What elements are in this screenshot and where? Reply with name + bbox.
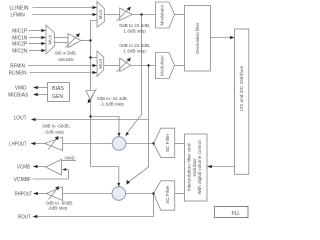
- svg-text:VCMBF: VCMBF: [14, 177, 32, 183]
- svg-text:VCMB: VCMB: [17, 165, 31, 171]
- svg-text:MIC2P: MIC2P: [12, 42, 27, 48]
- svg-text:Modulator: Modulator: [160, 54, 165, 76]
- svg-text:MUX: MUX: [48, 34, 53, 44]
- svg-text:Decimation filter: Decimation filter: [195, 22, 200, 54]
- svg-text:ROUT: ROUT: [18, 215, 31, 221]
- svg-text:1.6dB step: 1.6dB step: [123, 49, 146, 54]
- svg-text:1.6dB step: 1.6dB step: [123, 28, 146, 33]
- svg-text:0dB to 22.4dB,: 0dB to 22.4dB,: [119, 23, 150, 28]
- svg-text:LHPOUT: LHPOUT: [9, 142, 27, 148]
- svg-text:GEN: GEN: [52, 94, 63, 100]
- svg-text:-2dB step: -2dB step: [48, 206, 69, 211]
- svg-text:RHPOUT: RHPOUT: [15, 192, 33, 198]
- svg-text:RFMIN: RFMIN: [10, 64, 25, 70]
- svg-text:Modulator: Modulator: [160, 4, 165, 26]
- svg-text:LOUT: LOUT: [14, 116, 28, 122]
- svg-text:selectable: selectable: [58, 57, 74, 62]
- svg-text:MUX: MUX: [98, 58, 103, 68]
- svg-text:0dB to 22.4dB,: 0dB to 22.4dB,: [119, 43, 150, 48]
- svg-text:0dB to -60dB,: 0dB to -60dB,: [43, 124, 71, 129]
- svg-text:MUX: MUX: [98, 9, 103, 19]
- svg-text:0dB to -60dB,: 0dB to -60dB,: [46, 200, 74, 205]
- svg-text:0dB to -22.4dB,: 0dB to -22.4dB,: [97, 96, 128, 101]
- svg-text:0dB or 20dB,: 0dB or 20dB,: [55, 50, 77, 55]
- svg-text:BIAS: BIAS: [52, 86, 64, 92]
- svg-text:VMID: VMID: [65, 156, 75, 161]
- svg-text:With digital volume control: With digital volume control: [197, 140, 202, 194]
- svg-text:MICBIAS: MICBIAS: [8, 93, 28, 99]
- svg-text:MIC1P: MIC1P: [12, 29, 27, 35]
- svg-text:I2S and I2C Interface: I2S and I2C Interface: [239, 65, 244, 111]
- svg-text:PLL: PLL: [232, 211, 241, 217]
- svg-text:LLINEIN: LLINEIN: [10, 6, 29, 12]
- svg-text:SC Filter: SC Filter: [165, 185, 170, 204]
- svg-text:LFMIN: LFMIN: [11, 13, 25, 19]
- svg-text:SC Filter: SC Filter: [165, 133, 170, 152]
- svg-text:-1.6dB step: -1.6dB step: [100, 102, 125, 107]
- svg-text:VMID: VMID: [15, 86, 27, 92]
- svg-text:RLINEIN: RLINEIN: [9, 71, 27, 77]
- svg-text:-2dB step: -2dB step: [44, 130, 65, 135]
- svg-text:MIC2N: MIC2N: [12, 49, 27, 55]
